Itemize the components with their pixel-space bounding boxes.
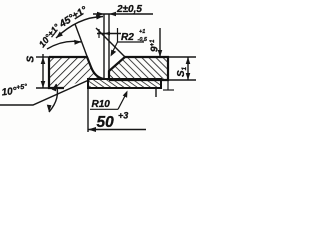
svg-text:2±0,5: 2±0,5 <box>116 4 142 15</box>
svg-text:S1: S1 <box>176 66 188 77</box>
svg-text:50: 50 <box>97 114 115 131</box>
svg-text:+1: +1 <box>139 29 145 35</box>
svg-text:S: S <box>26 56 37 63</box>
svg-text:45°±1°: 45°±1° <box>57 4 90 30</box>
svg-text:+3: +3 <box>118 111 128 121</box>
svg-text:9+1: 9+1 <box>150 39 161 52</box>
svg-text:R2: R2 <box>121 32 134 43</box>
svg-text:R10: R10 <box>92 99 111 110</box>
svg-text:10°+5°: 10°+5° <box>1 82 28 98</box>
